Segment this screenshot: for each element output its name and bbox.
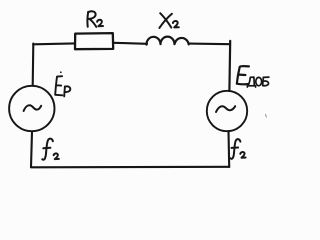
label EP (dotted E with subscript P): [55, 71, 70, 96]
wire left vertical lower: [31, 132, 32, 167]
label R2: [87, 11, 103, 27]
label f2 right: [231, 139, 246, 159]
wire resistor to inductor: [113, 43, 147, 44]
inductor X2: [146, 37, 188, 45]
AC source Edob (right circle): [207, 91, 247, 131]
label X2: [159, 13, 178, 28]
AC source EP (left circle): [9, 86, 54, 131]
scan speck: [265, 115, 268, 118]
wire right vertical upper (with overshoot above corner): [228, 41, 231, 91]
wire right vertical lower: [227, 131, 230, 167]
sine symbol in left source: [24, 105, 42, 111]
wire left vertical upper: [32, 44, 35, 86]
wire bottom horizontal: [31, 166, 229, 169]
wire inductor to top-right corner: [189, 43, 230, 46]
resistor R2: [75, 33, 113, 49]
label f2 left: [42, 139, 59, 160]
wire top-left horizontal segment: [33, 42, 75, 45]
label Edob (E with Cyrillic subscript DOB): [237, 66, 249, 84]
sine symbol in right source: [216, 106, 235, 112]
